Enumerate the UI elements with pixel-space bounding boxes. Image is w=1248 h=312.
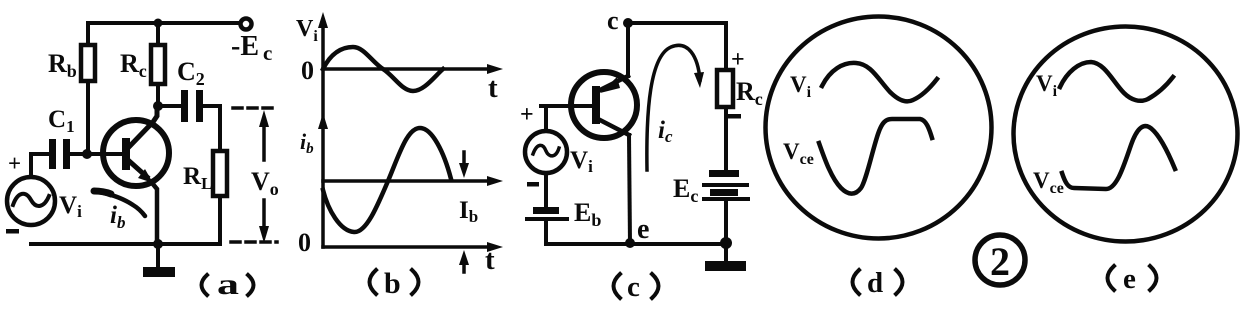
waveform ib sine: [323, 128, 451, 232]
wire top rail c: [628, 21, 726, 25]
transistor Q1 base bar: [122, 138, 130, 170]
svg-text:Vi: Vi: [790, 72, 812, 101]
Ib dimension arrow lower: [459, 250, 469, 272]
resistor Rc c: [717, 70, 733, 107]
resistor Rb: [81, 45, 95, 81]
svg-text:Rc: Rc: [736, 77, 763, 109]
figure number 2 circled: [975, 235, 1025, 285]
svg-text:C1: C1: [48, 106, 75, 136]
node collector junction: [153, 101, 163, 111]
svg-text:+: +: [520, 102, 534, 128]
svg-text:RL: RL: [183, 163, 212, 193]
source Vi sine symbol c: [533, 145, 559, 156]
capacitor C2: [181, 90, 203, 122]
transistor Q1 emitter line with arrow: [128, 160, 157, 244]
transistor Q1 circle: [103, 120, 169, 186]
wire RL bottom: [218, 196, 222, 244]
Vo arrow top: [259, 110, 269, 160]
resistor Rc: [151, 45, 165, 84]
ib arrow start blob: [94, 191, 111, 194]
transistor Q2 collector line (lower): [598, 119, 629, 135]
label - a: [6, 229, 19, 234]
svg-text:e: e: [1123, 263, 1136, 295]
wire Vi to base: [541, 106, 596, 131]
wire Rc bottom: [156, 84, 160, 106]
node c junction: [623, 18, 633, 28]
caption (b): [370, 267, 419, 300]
svg-text:C2: C2: [177, 57, 205, 89]
svg-text:ib: ib: [300, 129, 314, 157]
Ib dimension arrow upper: [459, 152, 469, 178]
caption (e): [1108, 263, 1157, 295]
wire Rc to Ec: [724, 107, 728, 171]
label - Rc: [728, 114, 741, 119]
svg-text:t: t: [485, 244, 495, 276]
waveform Vce d clipped top: [819, 119, 932, 194]
svg-text:0: 0: [298, 228, 311, 257]
caption (a): [202, 268, 254, 301]
waveform Vi sine: [323, 47, 443, 91]
svg-text:Ib: Ib: [459, 197, 478, 226]
transistor Q1 base wire: [87, 152, 122, 156]
wire Rc top: [156, 23, 160, 45]
wire C1 to base junction: [70, 152, 87, 156]
svg-text:Vi: Vi: [570, 147, 593, 176]
node top junction a: [154, 19, 163, 28]
wire bottom rail a: [31, 242, 220, 246]
svg-text:+: +: [8, 151, 21, 176]
wire C2 to RL: [203, 106, 220, 151]
svg-text:ib: ib: [110, 202, 125, 232]
node base junction a: [82, 149, 92, 159]
transistor Q2 circle: [571, 72, 637, 138]
circle e: [1014, 27, 1238, 242]
wire emitter down to e node: [629, 135, 630, 244]
waveform Vi e: [1060, 62, 1173, 101]
transistor Q2 base bar: [592, 86, 600, 124]
svg-text:Vi: Vi: [1036, 71, 1058, 100]
battery Ec: [702, 170, 750, 201]
wire Ec to ground node: [724, 201, 728, 244]
axis vertical lower arrowhead: [318, 113, 328, 129]
svg-text:-Ec: -Ec: [231, 31, 272, 65]
terminal -Ec open circle: [241, 19, 252, 30]
axis vertical upper b: [321, 20, 325, 122]
svg-text:ic: ic: [658, 117, 673, 146]
transistor Q2 emitter line with arrow (upper): [600, 76, 628, 93]
svg-text:t: t: [488, 72, 498, 104]
node e junction: [625, 238, 635, 248]
svg-text:d: d: [867, 267, 883, 299]
wire bottom rail c: [546, 242, 726, 246]
transistor Q1 collector line: [127, 106, 157, 149]
axis horizontal upper b: [323, 67, 494, 71]
svg-text:e: e: [637, 214, 649, 245]
svg-text:Rb: Rb: [48, 49, 77, 81]
caption (d): [853, 267, 903, 299]
svg-text:Rc: Rc: [120, 49, 147, 81]
svg-text:a: a: [217, 268, 239, 301]
axis vertical upper arrowhead: [318, 12, 328, 28]
svg-text:Vi: Vi: [296, 16, 318, 45]
capacitor C1: [49, 139, 70, 169]
wire top rail a: [88, 21, 239, 25]
source Vi sine symbol: [13, 194, 49, 206]
axis horizontal lower b: [323, 245, 494, 249]
ground a: [143, 246, 175, 277]
ib current arrow: [94, 191, 145, 216]
middle Ib level line: [323, 179, 494, 183]
axis horizontal lower arrowhead: [487, 242, 503, 252]
Vo arrow bottom: [259, 200, 269, 243]
caption (c): [614, 271, 659, 303]
waveform Vi d: [822, 63, 937, 102]
label - c: [527, 182, 539, 187]
wire collector up to c node: [626, 23, 630, 76]
svg-text:Eb: Eb: [574, 198, 601, 230]
axis horizontal upper arrowhead: [487, 64, 503, 74]
wire Vi to Eb: [544, 173, 548, 207]
svg-text:2: 2: [990, 239, 1010, 284]
svg-text:Ec: Ec: [673, 174, 698, 206]
source Vi circle c: [525, 131, 567, 173]
wire Vi top to C1: [31, 154, 49, 177]
Vo dashed bottom line: [231, 240, 277, 244]
svg-text:c: c: [627, 271, 640, 303]
battery Eb: [525, 207, 569, 221]
svg-text:c: c: [607, 6, 619, 35]
wire to Rc: [724, 23, 728, 70]
svg-text:Vce: Vce: [783, 139, 814, 168]
source Vi circle a: [7, 177, 55, 225]
wire to C2: [158, 104, 181, 108]
middle line arrowhead: [487, 176, 503, 186]
resistor RL: [213, 151, 227, 196]
Vo dashed top line: [233, 106, 277, 110]
svg-text:Vce: Vce: [1033, 168, 1064, 197]
svg-text:Vo: Vo: [251, 167, 279, 199]
wire Rb bottom to base node: [86, 81, 90, 154]
svg-text:b: b: [384, 267, 401, 300]
ic current arrow: [647, 45, 704, 170]
svg-text:0: 0: [301, 56, 314, 85]
svg-text:Vi: Vi: [59, 192, 82, 221]
node ground junction c: [720, 237, 732, 249]
wire Eb to bottom rail: [544, 221, 548, 244]
axis vertical lower b: [321, 122, 325, 247]
node emitter-ground junction: [153, 239, 163, 249]
wire Rb top: [86, 23, 90, 45]
waveform Vce e clipped bottom: [1062, 126, 1175, 189]
circle d: [766, 17, 992, 239]
ground c: [705, 246, 746, 271]
